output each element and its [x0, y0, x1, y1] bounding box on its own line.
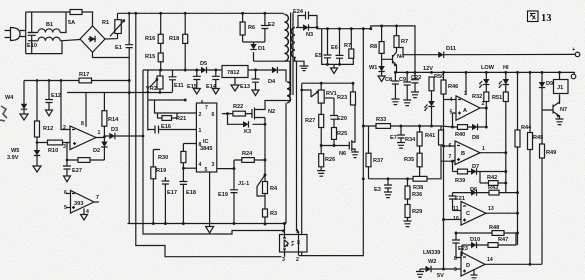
- capacitor E14: [206, 70, 220, 94]
- wire loop x127.5: [128, 81, 130, 224]
- resistor R50: [429, 74, 444, 101]
- node r38rail-x363 none: [387, 177, 390, 180]
- capacitor C9: [399, 72, 411, 105]
- node r38rail-r35: [418, 177, 421, 180]
- resistor R3: [263, 209, 278, 225]
- resistor R14: [102, 93, 119, 137]
- wire op1 pin2 input: [61, 81, 70, 130]
- node aux-R18: [184, 69, 187, 72]
- node rail72-x530: [529, 71, 532, 74]
- wire mains top rail: [26, 11, 70, 13]
- resistor R18: [169, 13, 188, 70]
- wire bridge + output to R1: [105, 34, 118, 40]
- node rail-E2: [263, 12, 266, 15]
- capacitor C22: [411, 72, 421, 97]
- node r17bus-op1: [60, 79, 63, 82]
- wire 12V rail: [397, 71, 575, 73]
- transistor N7: [542, 95, 567, 125]
- node rail-x136: [134, 12, 137, 15]
- node rail72-R46: [442, 71, 445, 74]
- resistor R32: [472, 92, 489, 109]
- node aux-E15: [195, 69, 198, 72]
- op-amp U2A: [63, 93, 101, 151]
- node opA-r33rail: [485, 126, 488, 129]
- transformer primary winding: [254, 13, 291, 61]
- resistor Rfb op1: [67, 158, 104, 163]
- wire mains bottom rail: [26, 41, 62, 54]
- resistor R39 line with D7: [453, 169, 472, 184]
- wire long feedback x136: [136, 13, 282, 256]
- node pin3-E19: [233, 167, 236, 170]
- resistor R15: [145, 53, 163, 70]
- node vr2-y92: [146, 91, 149, 94]
- capacitor E3: [374, 179, 392, 198]
- wire opA output down: [485, 108, 487, 127]
- capacitor E2: [261, 13, 275, 42]
- node 12v-R50: [430, 71, 433, 74]
- diode D10: [462, 237, 488, 248]
- node bus-opto4: [283, 222, 286, 225]
- scan artifact left edge: [0, 106, 7, 121]
- node C in10: [442, 218, 445, 221]
- node rail-x363: [362, 27, 365, 30]
- terminal plus: [572, 47, 580, 57]
- bridge rectifier D4: [80, 26, 105, 52]
- diode D7: [471, 164, 506, 175]
- node rail26-R8: [380, 24, 383, 27]
- op-amp U2B 393: [64, 190, 99, 220]
- node rail72-x518: [516, 71, 519, 74]
- resistor R40: [451, 125, 472, 138]
- capacitor E18: [179, 182, 196, 224]
- mosfet N2: [252, 61, 290, 119]
- resistor R24: [234, 151, 265, 188]
- node aux-E13: [254, 69, 257, 72]
- node B in7: [451, 160, 454, 163]
- resistor R48: [489, 225, 504, 235]
- node rail72-pin3: [465, 71, 468, 74]
- op-amp A: [444, 72, 487, 127]
- capacitor E11: [169, 70, 184, 92]
- resistor R29: [404, 205, 423, 227]
- node rail-R18: [184, 12, 187, 15]
- AC plug P1: [5, 28, 26, 41]
- wire R17 bus y80.5: [24, 80, 129, 82]
- capacitor E21: [449, 193, 465, 211]
- node d3-x143: [142, 135, 145, 138]
- diode D8: [472, 124, 486, 141]
- wire feedback x143: [143, 70, 285, 234]
- wire aux rail y70: [143, 70, 286, 82]
- diode D3: [109, 127, 143, 139]
- wire op1 pin3 col: [66, 143, 68, 167]
- wire fuse to bridge: [82, 12, 93, 26]
- node x363-R33rail: [362, 125, 365, 128]
- capacitor E23: [452, 233, 468, 256]
- fuse 5A: [68, 10, 82, 27]
- transformer core: [291, 13, 293, 96]
- node W2-x443: [442, 268, 445, 271]
- node R42-x506: [504, 182, 507, 185]
- resistor R27: [305, 114, 324, 153]
- zener W4: [5, 81, 28, 121]
- node rail-E5: [326, 27, 329, 30]
- op-amp C: [444, 202, 518, 226]
- thermistor R1: [102, 13, 125, 36]
- resistor R22: [222, 104, 252, 116]
- node rail-jog: [369, 27, 372, 30]
- wire snubber bottom: [243, 42, 265, 61]
- capacitor E17: [161, 177, 177, 224]
- resistor R23: [337, 83, 356, 105]
- node rail-R6: [241, 12, 244, 15]
- resistor R51: [492, 92, 508, 193]
- resistor R47: [488, 233, 516, 247]
- resistor R7a: [344, 29, 354, 59]
- resistor R17: [79, 72, 92, 83]
- node rail26-R7b: [395, 24, 398, 27]
- wire 3845 pin5 ground: [209, 172, 211, 227]
- wire + rail top: [118, 12, 284, 14]
- node R30-pin4: [182, 167, 185, 170]
- resistor R41: [425, 126, 444, 161]
- capacitor C8: [385, 72, 399, 104]
- node Dout-x530: [529, 263, 532, 266]
- wire vr2 left column: [147, 70, 149, 131]
- node r17bus-R12: [36, 79, 39, 82]
- choke B1: [28, 12, 80, 41]
- ground secondary: [300, 66, 309, 71]
- node R48-x518: [516, 232, 519, 235]
- wire n6 gate line: [321, 145, 349, 147]
- node x363-R38rail: [362, 177, 365, 180]
- resistor R35: [404, 153, 422, 179]
- ground E block: [331, 64, 338, 73]
- text figure 13: [528, 11, 552, 24]
- node bus-R3: [264, 223, 267, 226]
- node r33rail-led: [430, 125, 433, 128]
- optocoupler U3: [280, 224, 308, 263]
- node B in6: [442, 145, 445, 148]
- transistor N4: [382, 48, 405, 73]
- capacitor E10: [27, 12, 37, 54]
- node r38rail-r36: [406, 177, 409, 180]
- capacitor E24: [293, 9, 318, 29]
- diode D1: [250, 44, 265, 52]
- node C out: [516, 212, 519, 215]
- zener D9: [539, 72, 553, 110]
- node r25-n6line: [333, 144, 336, 147]
- resistor R12: [35, 81, 54, 151]
- wire 3845 pin8: [183, 144, 196, 152]
- node rail-E6: [338, 27, 341, 30]
- wire 3845 pin3: [217, 168, 234, 170]
- resistor R16: [145, 13, 163, 53]
- resistor R36: [405, 179, 422, 205]
- capacitor E6: [331, 29, 344, 65]
- diode D5: [200, 61, 210, 73]
- capacitor E16: [148, 124, 197, 134]
- pot RV1: [300, 83, 336, 114]
- wire ground bus y223.5: [128, 223, 287, 225]
- node rail72-D9: [541, 71, 544, 74]
- node bus-E18: [182, 222, 185, 225]
- wire R48 line: [456, 232, 518, 234]
- node rail72-led2: [504, 71, 507, 74]
- resistor R8: [370, 26, 384, 59]
- node pin3-fb: [66, 159, 69, 162]
- node 12v-C8: [394, 71, 397, 74]
- node R12-R10: [36, 141, 39, 144]
- resistor R4: [263, 175, 279, 209]
- op-amp D: [444, 252, 543, 280]
- resistor R26: [317, 154, 335, 177]
- node B out: [504, 151, 507, 154]
- wire D11 to plus terminal: [444, 53, 576, 55]
- diode D4: [268, 67, 277, 85]
- transformer aux winding: [286, 82, 291, 224]
- resistor R38: [413, 176, 427, 191]
- pot RV1 circuit top: [293, 61, 353, 255]
- resistor R49: [540, 110, 557, 264]
- resistor R25: [332, 128, 348, 146]
- capacitor E15: [187, 70, 201, 94]
- zener W2: [416, 259, 444, 279]
- node 12v-C9: [406, 71, 409, 74]
- node D7-x506: [504, 170, 507, 173]
- node botline-E6: [338, 63, 341, 66]
- op-amp B: [444, 141, 506, 172]
- node botline-E5: [326, 63, 329, 66]
- node D10-line-E23col: [461, 245, 463, 256]
- switch J1-1: [238, 174, 266, 196]
- capacitor E13: [240, 70, 260, 96]
- node rail-E1: [128, 12, 131, 15]
- node rv1top: [320, 82, 323, 85]
- node bus-E19: [233, 222, 236, 225]
- relay J1: [554, 71, 569, 104]
- node 12v-C22: [414, 71, 417, 74]
- wire N2 source column: [264, 118, 266, 176]
- resistor R46: [441, 72, 458, 269]
- led LOW: [479, 72, 489, 92]
- diode D11: [438, 46, 456, 58]
- wire D11 feed: [399, 48, 438, 55]
- terminal minus: [571, 72, 576, 78]
- wire long feedback x363: [299, 29, 363, 256]
- wire op1 output: [96, 136, 109, 138]
- resistor R44: [515, 72, 532, 245]
- node rail72-led1: [485, 71, 488, 74]
- capacitor E5: [315, 29, 332, 65]
- ground pin5 arrow: [206, 227, 214, 234]
- pot VR2: [146, 70, 163, 92]
- resistor R33: [376, 117, 391, 128]
- wire pin2 line: [155, 100, 197, 113]
- node op1out-R14: [103, 135, 106, 138]
- capacitor E20: [325, 98, 347, 128]
- resistor R21: [158, 113, 187, 122]
- node opAout: [485, 107, 488, 110]
- resistor R43: [488, 185, 518, 195]
- resistor R19: [151, 150, 166, 224]
- wire mains left vertical: [25, 12, 27, 54]
- node r33rail-R34: [418, 125, 421, 128]
- wire R33 rail y126: [363, 126, 452, 127]
- wire bridge bottom to gnd bus: [93, 52, 130, 57]
- resistor R30: [158, 151, 186, 181]
- resistor R34: [405, 126, 422, 153]
- regulator 7812: [222, 66, 248, 92]
- capacitor E1: [115, 13, 133, 80]
- wire secondary rail to right: [317, 26, 415, 73]
- zener W1: [369, 59, 385, 81]
- node r27-n6line: [320, 144, 323, 147]
- node r17bus-E1: [128, 79, 131, 82]
- wire 3845 pin4: [183, 167, 196, 169]
- diode D2: [93, 137, 108, 160]
- capacitor E7: [390, 126, 405, 148]
- node bus-E17: [164, 222, 167, 225]
- resistor R10: [37, 140, 70, 154]
- IC U1 3845: [196, 103, 216, 173]
- resistor R45: [528, 72, 544, 264]
- resistor R37: [366, 126, 383, 179]
- node y92-VR2box: [159, 91, 162, 94]
- node aux-E14: [214, 69, 217, 72]
- capacitor E19: [218, 188, 238, 224]
- zener W5: [7, 148, 41, 172]
- node r33rail-E7: [400, 125, 403, 128]
- node r17bus-E12: [48, 79, 51, 82]
- capacitor E27: [63, 166, 82, 182]
- wire y92 line: [67, 92, 173, 94]
- node x185-y100: [184, 99, 187, 102]
- led HI: [499, 72, 509, 92]
- capacitor E12: [45, 81, 61, 116]
- diode D6 line: [453, 187, 490, 196]
- diode D6s secondary: [303, 24, 309, 30]
- node R48-E23: [455, 232, 458, 235]
- node rail-R16: [159, 12, 162, 15]
- wire 3845 pin7 supply: [148, 100, 202, 103]
- mosfet N6: [339, 105, 359, 158]
- node R24-N2: [264, 159, 267, 162]
- node R43-x518: [516, 191, 519, 194]
- resistor R6: [240, 13, 255, 42]
- node pin6-R22: [226, 112, 229, 115]
- wire R38 rail y178.8: [369, 161, 453, 179]
- transformer secondary N3: [291, 28, 317, 67]
- node rail-R7a: [350, 27, 353, 30]
- wire E5 block rail: [322, 29, 354, 65]
- node y92-E1: [128, 91, 131, 94]
- node bus-R19: [152, 222, 155, 225]
- node aux-R15: [159, 69, 162, 72]
- resistor R42: [480, 172, 506, 186]
- resistor R7b: [394, 26, 408, 48]
- node K3-N2: [264, 123, 267, 126]
- led W led: [425, 101, 435, 126]
- diode K3: [228, 114, 266, 135]
